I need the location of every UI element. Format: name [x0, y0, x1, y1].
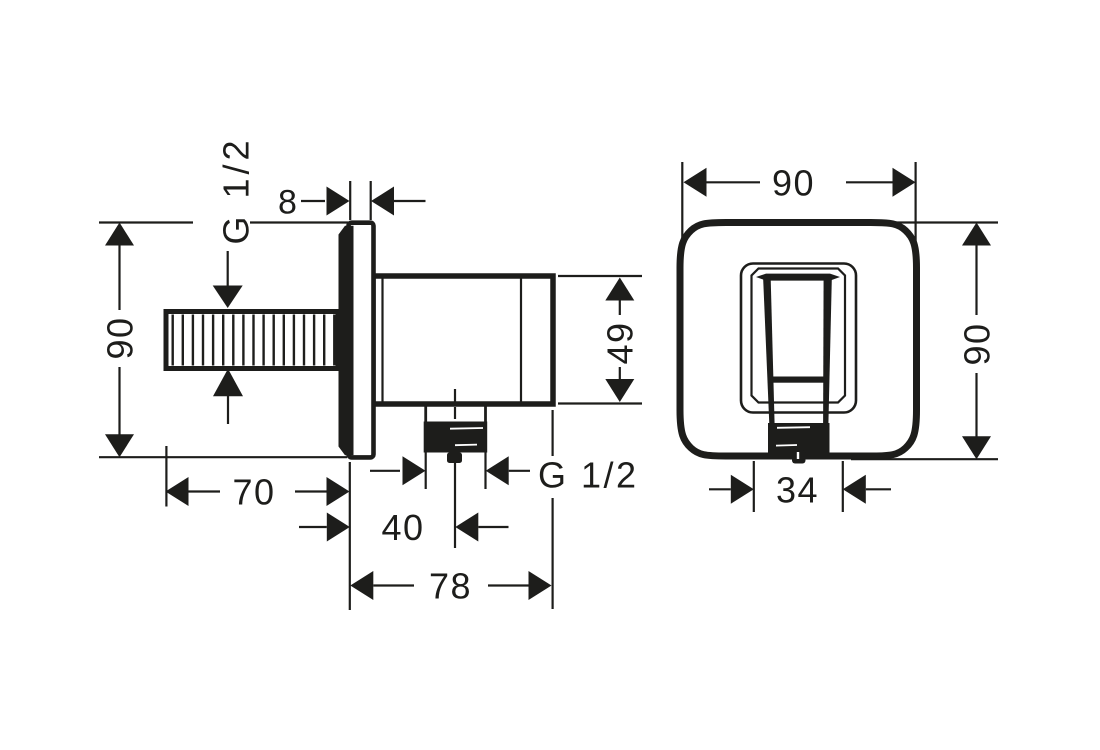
dimension 34: [709, 461, 891, 512]
svg-text:49: 49: [599, 321, 640, 364]
holder outer shell (front view): [741, 264, 856, 413]
svg-text:70: 70: [232, 472, 275, 513]
dimension 78: [350, 410, 552, 609]
wall face extension line: [349, 462, 351, 610]
holder cross band: [768, 377, 826, 383]
body block: [373, 276, 553, 404]
dimension 49: [558, 276, 642, 404]
bottom outlet nipple (side view): [424, 404, 488, 463]
outlet thread block (front view): [768, 423, 830, 453]
holder left arm: [763, 275, 775, 424]
threaded pipe: [166, 312, 338, 369]
outlet centre line: [454, 389, 456, 548]
svg-text:G 1/2: G 1/2: [538, 454, 639, 495]
label G 1/2 (bottom outlet thread): [370, 449, 639, 495]
holder inset outline: [752, 269, 846, 403]
svg-text:40: 40: [381, 507, 424, 548]
svg-text:78: 78: [429, 566, 472, 607]
svg-text:90: 90: [100, 316, 141, 359]
dimension 40: [299, 507, 509, 548]
dimension 90 (right height): [851, 223, 998, 460]
dimension 90 (top width): [682, 162, 915, 262]
wall plate (escutcheon, side view): [339, 223, 374, 458]
svg-text:34: 34: [776, 469, 819, 510]
svg-text:G 1/2: G 1/2: [216, 136, 257, 244]
label G 1/2 (top, pipe thread): [213, 136, 257, 424]
dimension 90 (left height): [99, 223, 348, 458]
svg-text:90: 90: [956, 322, 997, 365]
escutcheon squircle (front view): [680, 223, 917, 457]
dimension 70: [166, 446, 350, 513]
holder right arm: [823, 275, 832, 424]
dimension 8 (plate thickness): [278, 181, 425, 222]
svg-text:8: 8: [278, 184, 297, 222]
outlet tip nub: [792, 450, 806, 464]
holder top bar: [756, 274, 840, 281]
svg-text:90: 90: [772, 162, 815, 203]
